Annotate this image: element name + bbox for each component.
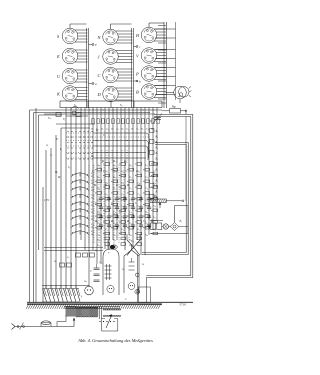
svg-text:L: L [74, 231, 77, 234]
tube P [135, 66, 166, 82]
trimmer potentiometer [150, 114, 162, 124]
switch wafer label column [90, 172, 94, 236]
tube S [57, 28, 88, 44]
svg-text:R₂₄: R₂₄ [112, 239, 116, 242]
capacitor grid [99, 196, 151, 230]
mid dashed vertical wires [97, 150, 127, 164]
right bottom wires [135, 255, 150, 303]
svg-text:Rₑ: Rₑ [104, 184, 108, 187]
svg-text:R₃₀: R₃₀ [90, 233, 94, 236]
electrolytic capacitor blob [108, 245, 117, 254]
tube E [56, 48, 88, 64]
svg-text:L: L [74, 180, 77, 183]
svg-text:R₃₂: R₃₂ [96, 187, 100, 190]
svg-text:R₁₆: R₁₆ [96, 164, 100, 167]
terminal a [89, 82, 98, 86]
svg-text:M₅: M₅ [57, 176, 61, 179]
svg-text:C₂₁: C₂₁ [153, 170, 156, 173]
svg-text:C₂₁: C₂₁ [97, 210, 100, 213]
tube H [135, 27, 166, 43]
svg-text:R₃₀: R₃₀ [90, 189, 94, 192]
svg-text:R₁₆: R₁₆ [96, 239, 100, 242]
svg-text:Rᵥ: Rᵥ [150, 220, 154, 223]
svg-text:L: L [74, 202, 77, 205]
svg-text:P: P [135, 71, 139, 76]
ground bus bar [27, 302, 193, 304]
svg-text:L: L [74, 216, 77, 219]
left vertical wire 4 [38, 115, 40, 250]
svg-text:R₁₆: R₁₆ [144, 210, 148, 213]
svg-text:Vₘ: Vₘ [48, 117, 52, 120]
svg-text:R₂₄: R₂₄ [128, 234, 132, 237]
svg-text:R₁: R₁ [150, 128, 153, 131]
grid dashed horizontal wires [66, 133, 150, 158]
svg-text:Cₐ: Cₐ [95, 202, 98, 205]
svg-text:R₄₁: R₄₁ [144, 164, 148, 167]
svg-text:R₃: R₃ [53, 260, 57, 263]
upper junction wire [44, 113, 155, 115]
svg-text:R₁₆: R₁₆ [112, 234, 116, 237]
svg-text:Cₓ: Cₓ [135, 202, 138, 205]
resistor Rz [157, 223, 162, 230]
terminal r [134, 45, 142, 49]
svg-text:C₂: C₂ [106, 128, 109, 131]
svg-text:L: L [74, 173, 77, 176]
svg-text:C₁₃: C₁₃ [105, 216, 108, 219]
horizontal supply wire [30, 109, 163, 111]
svg-text:Rₓ: Rₓ [126, 184, 130, 187]
svg-text:S: S [57, 34, 60, 39]
resistor Rgl [162, 105, 187, 115]
svg-text:a: a [95, 82, 97, 86]
svg-text:U: U [57, 74, 61, 79]
svg-text:F: F [94, 43, 97, 47]
lower resistor row [60, 253, 95, 267]
crossing wires [127, 234, 140, 256]
voltage divider sawtooth [42, 286, 80, 303]
svg-text:C₂₆: C₂₆ [137, 205, 140, 208]
svg-text:5719: 5719 [179, 303, 186, 307]
svg-text:K: K [56, 91, 61, 96]
svg-text:S₃: S₃ [68, 166, 70, 169]
svg-text:R₃₂: R₃₂ [144, 234, 148, 237]
svg-text:R₁: R₁ [130, 128, 133, 131]
svg-text:C₂₆: C₂₆ [121, 216, 124, 219]
horizontal supply wire 2 [34, 112, 151, 114]
svg-text:R₁: R₁ [140, 128, 143, 131]
meter circuit wires [150, 117, 188, 234]
svg-text:C₂₆: C₂₆ [145, 199, 148, 202]
svg-text:q: q [108, 251, 110, 254]
svg-text:R₄₁: R₄₁ [112, 187, 116, 190]
svg-text:Rₗ: Rₗ [101, 160, 105, 163]
svg-text:Abb. 4. Gesamtschaltung des Me: Abb. 4. Gesamtschaltung des Meßgerätes [77, 338, 153, 343]
mains wire [15, 315, 75, 327]
tube V1 bottom [85, 286, 94, 295]
svg-text:C₂₆: C₂₆ [105, 228, 108, 231]
svg-text:Rɡₗ: Rɡₗ [171, 105, 176, 109]
rectifier tube envelope G2 [124, 244, 139, 293]
svg-text:Tᵣ: Tᵣ [125, 298, 127, 301]
svg-text:L: L [74, 195, 77, 198]
svg-text:R₁₆: R₁₆ [152, 205, 156, 208]
svg-text:Rₒ: Rₒ [115, 184, 119, 187]
tap selector switch [99, 315, 117, 332]
svg-text:C₂: C₂ [116, 128, 119, 131]
bottom zone labels [53, 240, 145, 301]
switch wafer arc stack [71, 173, 89, 235]
svg-text:w: w [46, 144, 48, 147]
svg-text:P₃: P₃ [179, 220, 183, 223]
wire bus column 1 [70, 24, 89, 108]
svg-text:E: E [56, 54, 60, 59]
svg-text:R₂₄: R₂₄ [112, 164, 116, 167]
svg-text:C₂₆: C₂₆ [97, 234, 100, 237]
tube U [57, 68, 88, 84]
svg-text:L: L [74, 187, 77, 190]
svg-text:R₃₂: R₃₂ [128, 164, 132, 167]
svg-text:k₁: k₁ [60, 148, 62, 151]
svg-text:Rₑ: Rₑ [141, 263, 145, 266]
svg-text:R₁₆: R₁₆ [96, 244, 100, 247]
svg-text:C₄: C₄ [92, 170, 95, 173]
svg-text:Rₘ: Rₘ [112, 160, 117, 163]
svg-text:R₃₀: R₃₀ [90, 204, 94, 207]
svg-text:C₁: C₁ [103, 134, 106, 137]
svg-text:Cₒ: Cₒ [119, 211, 122, 214]
svg-text:R₉: R₉ [95, 129, 99, 132]
grid dashed vertical wires [89, 165, 129, 243]
svg-text:R₁: R₁ [110, 128, 113, 131]
left vertical wire 2 [33, 113, 35, 303]
right resistor column [150, 129, 159, 199]
tube J [98, 49, 133, 65]
svg-text:R₆: R₆ [155, 158, 159, 161]
tube K [56, 86, 88, 102]
svg-text:Rₔ: Rₔ [137, 184, 141, 187]
svg-text:k: k [81, 295, 83, 298]
svg-text:C₂₆: C₂₆ [129, 210, 132, 213]
svg-text:C₂₁: C₂₁ [105, 205, 108, 208]
resistor Rv [150, 220, 156, 230]
horizontal supply wire 3 [39, 114, 63, 116]
svg-text:S₆: S₆ [95, 249, 97, 252]
svg-text:P₂: P₂ [153, 195, 157, 199]
svg-text:R₁: R₁ [155, 130, 159, 133]
svg-text:R₁₆: R₁₆ [136, 216, 140, 219]
small switch contacts [56, 106, 81, 116]
svg-text:C: C [90, 270, 92, 273]
svg-text:C₂₁: C₂₁ [145, 176, 148, 179]
svg-text:R₅: R₅ [155, 152, 159, 155]
svg-text:C₂: C₂ [146, 128, 149, 131]
top resistor row labels [90, 128, 153, 131]
transformer primary winding [66, 306, 98, 317]
lower horizontal wires [42, 248, 103, 286]
wire bus column 2 [111, 24, 134, 108]
svg-text:C₁₃: C₁₃ [137, 193, 140, 196]
svg-text:C₁₃: C₁₃ [113, 210, 116, 213]
svg-text:Rₖ: Rₖ [90, 155, 95, 158]
svg-text:b: b [139, 80, 141, 84]
tube B [136, 84, 166, 100]
terminal F [89, 43, 98, 47]
svg-text:S₂: S₂ [120, 103, 123, 107]
svg-text:R₃₀: R₃₀ [90, 218, 94, 221]
transformer core [64, 307, 120, 320]
svg-text:V₄: V₄ [50, 154, 53, 157]
svg-text:M₉: M₉ [54, 171, 58, 174]
svg-text:C₁₃: C₁₃ [121, 205, 124, 208]
svg-text:B: B [136, 89, 139, 94]
svg-text:Gₗ₂: Gₗ₂ [131, 240, 134, 243]
svg-text:R₂₄: R₂₄ [136, 228, 140, 231]
transformer secondary winding [103, 309, 121, 317]
mains plug [12, 324, 16, 330]
capacitor stack C10 [90, 264, 100, 282]
svg-text:V: V [136, 53, 140, 58]
left grid horizontal wires [56, 111, 95, 128]
svg-text:C₁₅: C₁₅ [99, 261, 103, 264]
svg-text:R₂: R₂ [155, 136, 159, 139]
svg-text:R₁: R₁ [90, 128, 93, 131]
svg-text:C₅: C₅ [103, 170, 106, 173]
svg-text:R₄₁: R₄₁ [104, 193, 108, 196]
left vertical wire 1 [29, 110, 31, 303]
magic-eye tube AM [166, 86, 192, 103]
svg-text:C₂: C₂ [126, 128, 129, 131]
grid vertical wires [46, 108, 157, 289]
switch band S1 [60, 101, 162, 108]
grid component labels [44, 117, 147, 223]
svg-text:R₁: R₁ [120, 128, 123, 131]
svg-text:Cₑ: Cₑ [111, 202, 114, 205]
svg-text:L: L [74, 224, 77, 227]
svg-text:C₁₃: C₁₃ [153, 181, 156, 184]
svg-text:R₄₁: R₄₁ [128, 176, 132, 179]
svg-text:D: D [97, 92, 102, 97]
svg-text:Rₐ: Rₐ [93, 184, 97, 187]
fuse Si [41, 321, 51, 327]
mains switch Sch [17, 323, 25, 330]
ground bus hatching [26, 304, 160, 308]
svg-text:Ne: Ne [83, 280, 88, 283]
component matrix labels [95, 163, 157, 248]
svg-text:C₆: C₆ [114, 170, 117, 173]
svg-text:C₂: C₂ [136, 128, 139, 131]
svg-text:Gₗ₁: Gₗ₁ [113, 243, 116, 246]
svg-text:R₁: R₁ [100, 128, 103, 131]
left vertical wire 3 [35, 108, 37, 303]
svg-text:C₇: C₇ [125, 170, 128, 173]
outer shield frame [146, 115, 193, 278]
svg-text:R₃₀: R₃₀ [90, 197, 94, 200]
svg-text:V₉: V₉ [63, 118, 66, 121]
svg-text:H: H [135, 33, 140, 38]
middle horizontal bus wires [93, 133, 149, 161]
potentiometer P2 [150, 195, 184, 209]
meter M [162, 224, 170, 229]
svg-text:C₁₃: C₁₃ [129, 199, 132, 202]
svg-text:O₂: O₂ [122, 268, 125, 271]
rectifier tube envelope G1 [103, 240, 119, 295]
svg-text:R₃₀: R₃₀ [90, 175, 94, 178]
inner shield frame [142, 143, 188, 255]
svg-text:C₁₃: C₁₃ [145, 187, 148, 190]
svg-text:R₂₄: R₂₄ [96, 176, 100, 179]
svg-text:1,5V: 1,5V [44, 199, 49, 202]
svg-text:R₃₀: R₃₀ [90, 226, 94, 229]
svg-text:C: C [98, 73, 101, 78]
wire bundle column 3 [149, 22, 176, 108]
tube C [98, 67, 133, 83]
svg-text:C₂₁: C₂₁ [121, 193, 124, 196]
terminal k [146, 226, 150, 229]
svg-text:N: N [97, 35, 102, 40]
svg-text:J: J [98, 54, 101, 59]
switch contact dots [68, 131, 93, 160]
svg-text:L: L [74, 209, 77, 212]
svg-text:R₄₁: R₄₁ [120, 181, 124, 184]
tube N [97, 29, 133, 45]
svg-text:r: r [139, 45, 141, 49]
svg-text:C₉: C₉ [67, 256, 70, 259]
tube D [97, 86, 133, 102]
svg-text:R₄: R₄ [155, 147, 159, 150]
svg-text:P₁: P₁ [55, 138, 59, 141]
top resistor row [92, 109, 159, 123]
svg-text:C₂₁: C₂₁ [129, 187, 132, 190]
svg-text:R₁₆: R₁₆ [120, 228, 124, 231]
svg-text:R₃₂: R₃₂ [112, 176, 116, 179]
tube V [136, 48, 166, 64]
left vertical wire 5 [42, 187, 44, 303]
rectifier bridge Gr [170, 220, 188, 231]
svg-text:R₃₀: R₃₀ [90, 211, 94, 214]
svg-text:C₈: C₈ [136, 170, 139, 173]
svg-text:R₃₂: R₃₂ [120, 170, 124, 173]
terminal b [134, 80, 142, 84]
